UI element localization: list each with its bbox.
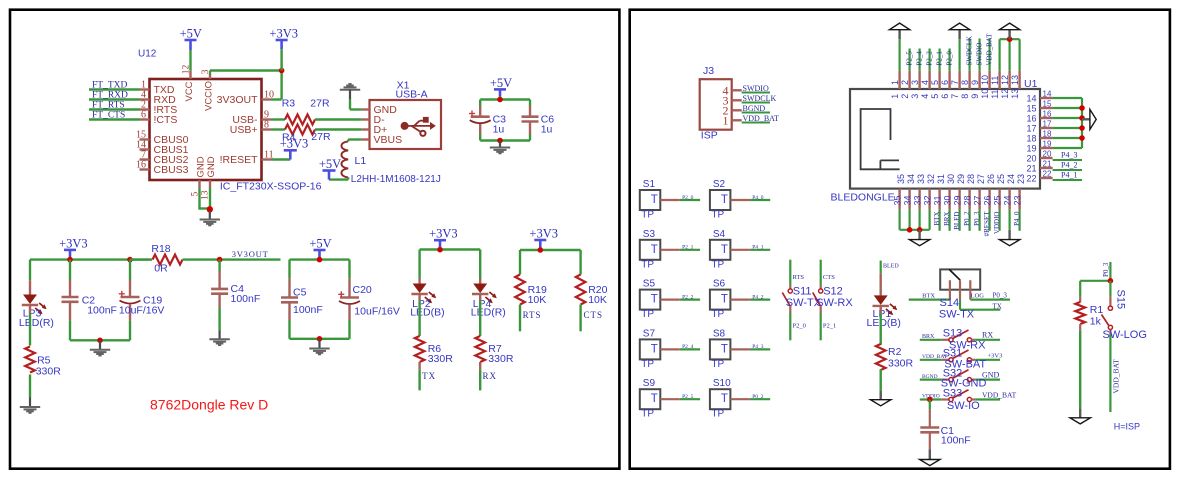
LED LP4 xyxy=(479,279,481,284)
junction +3V3 top xyxy=(279,68,285,74)
resistor R5 xyxy=(25,347,35,373)
wire LP3 to R5 xyxy=(29,305,31,313)
svg-text:26: 26 xyxy=(983,195,993,205)
svg-text:22: 22 xyxy=(1043,170,1052,179)
svg-text:34: 34 xyxy=(903,195,913,205)
svg-text:6: 6 xyxy=(940,80,950,85)
svg-text:10: 10 xyxy=(980,75,990,85)
ground arrow pin24 xyxy=(1008,230,1010,240)
svg-text:BLEDONGLE: BLEDONGLE xyxy=(831,192,895,204)
svg-text:RX: RX xyxy=(982,331,993,340)
svg-text:27: 27 xyxy=(976,174,986,184)
net label FT_CTS xyxy=(89,118,140,120)
svg-text:RX: RX xyxy=(483,371,498,381)
svg-text:2: 2 xyxy=(900,80,910,85)
svg-text:24: 24 xyxy=(1006,174,1016,184)
resistor R6 xyxy=(415,336,425,362)
U1 pin 19 xyxy=(1040,147,1053,149)
svg-text:P2_4: P2_4 xyxy=(916,51,924,66)
svg-text:FT_RXD: FT_RXD xyxy=(92,91,128,101)
capacitor C20 xyxy=(348,260,350,279)
svg-text:33: 33 xyxy=(913,195,923,205)
wire S2 to P4_0 xyxy=(730,199,750,201)
wire S7 to P2_4 xyxy=(660,348,680,350)
capacitor C3 xyxy=(479,100,481,107)
svg-text:29: 29 xyxy=(956,174,966,184)
svg-text:20: 20 xyxy=(1026,154,1036,164)
U1 pin 22 xyxy=(1040,177,1053,179)
power +5V U12 xyxy=(189,50,191,71)
svg-text:GND: GND xyxy=(196,156,207,177)
wire BTX to S14 xyxy=(909,299,950,301)
U1 pin 30 xyxy=(948,189,950,210)
switch S12 SW-RX xyxy=(820,260,822,285)
svg-text:14: 14 xyxy=(1043,90,1052,99)
svg-text:SW-IO: SW-IO xyxy=(947,400,980,412)
U1 pin 14 xyxy=(1040,97,1053,99)
svg-text:ISP: ISP xyxy=(701,129,718,141)
testpoint S9 xyxy=(640,389,661,409)
svg-text:18: 18 xyxy=(1043,130,1052,139)
svg-text:P0_2: P0_2 xyxy=(752,394,764,400)
U1 module drawing xyxy=(861,109,900,169)
wire R4 to D+ xyxy=(315,128,362,130)
svg-text:3V3OUT: 3V3OUT xyxy=(217,94,258,106)
svg-text:SW-LOG: SW-LOG xyxy=(1103,329,1147,341)
svg-text:3V3OUT: 3V3OUT xyxy=(232,249,269,259)
switch S32 SW-GND xyxy=(920,379,942,381)
svg-text:21: 21 xyxy=(1043,160,1052,169)
svg-text:FT_TXD: FT_TXD xyxy=(92,81,128,91)
U1 pin 7 xyxy=(958,71,960,89)
svg-text:H=ISP: H=ISP xyxy=(1114,422,1140,432)
svg-text:+5V: +5V xyxy=(490,76,512,90)
U12 pin 6 !CTS xyxy=(140,118,150,120)
junction pin34 bottom xyxy=(907,227,913,233)
svg-text:32: 32 xyxy=(923,195,933,205)
wire LP2 to R6 xyxy=(418,294,420,301)
svg-text:P0_3: P0_3 xyxy=(973,211,981,226)
U1 pin 4 xyxy=(928,71,930,89)
wire +3V3 rail left xyxy=(30,258,150,260)
junction C5 rail xyxy=(317,257,323,263)
U1 pin 23 xyxy=(1018,189,1020,210)
inductor L1 xyxy=(341,141,348,177)
svg-text:BRX: BRX xyxy=(922,334,935,340)
svg-text:24: 24 xyxy=(1003,195,1013,205)
wire R5 gnd xyxy=(29,375,31,398)
junction C3 top xyxy=(497,97,503,103)
svg-text:16: 16 xyxy=(1026,114,1036,124)
wire R1 gnd xyxy=(1079,330,1081,409)
power +3V3 pullups xyxy=(534,239,546,242)
junction C19 xyxy=(127,257,133,263)
svg-text:7: 7 xyxy=(950,94,960,99)
svg-text:+5V: +5V xyxy=(309,236,331,250)
svg-text:33: 33 xyxy=(916,174,926,184)
svg-text:USB-A: USB-A xyxy=(396,89,428,101)
svg-text:BTX: BTX xyxy=(922,292,935,299)
svg-text:330R: 330R xyxy=(488,353,514,365)
U12 pin 13 GND xyxy=(209,180,211,188)
U1 pin 13 xyxy=(1018,71,1020,89)
switch S15 SW-LOG xyxy=(1109,281,1111,297)
ground arrow C1 xyxy=(929,449,931,459)
svg-text:LED(R): LED(R) xyxy=(19,317,54,329)
svg-text:3: 3 xyxy=(910,80,920,85)
svg-text:14: 14 xyxy=(1026,94,1036,104)
svg-text:R2: R2 xyxy=(888,346,902,358)
svg-text:330R: 330R xyxy=(428,353,454,365)
wire +3V3 rail LEDs xyxy=(420,248,481,250)
svg-text:TP: TP xyxy=(641,210,654,221)
J3 pin 1 VDD_BAT xyxy=(732,119,742,121)
svg-text:USB+: USB+ xyxy=(230,124,258,136)
svg-text:S13: S13 xyxy=(943,328,963,340)
wire R18 to 3V3OUT xyxy=(183,258,281,260)
svg-text:31: 31 xyxy=(936,174,946,184)
svg-text:T: T xyxy=(651,194,658,206)
svg-text:SW-RX: SW-RX xyxy=(816,297,853,309)
junction S33 xyxy=(927,397,933,403)
svg-text:1k: 1k xyxy=(1090,316,1102,328)
wire VBUS to L1 xyxy=(348,138,362,140)
svg-text:BRX: BRX xyxy=(943,212,951,226)
svg-text:TP: TP xyxy=(711,359,724,370)
svg-text:15: 15 xyxy=(1026,104,1036,114)
switch S13 SW-RX xyxy=(920,339,942,341)
power +5V L1 xyxy=(328,171,331,180)
resistor R18 xyxy=(130,258,152,260)
svg-text:34: 34 xyxy=(906,174,916,184)
U12 pin 11 !RESET xyxy=(262,158,272,160)
junction right bracket xyxy=(1079,135,1085,141)
svg-text:J3: J3 xyxy=(703,65,714,77)
testpoint S10 xyxy=(710,389,731,409)
svg-text:T: T xyxy=(721,194,728,206)
junction S15 top xyxy=(1108,278,1114,284)
power +3V3 top xyxy=(280,49,282,70)
LED LP3 xyxy=(29,280,31,294)
U1 pin 29 xyxy=(958,189,960,210)
junction C2 xyxy=(67,257,73,263)
U12 pin 1 TXD xyxy=(140,88,150,90)
svg-text:5: 5 xyxy=(930,94,940,99)
wire R6 TX xyxy=(418,362,420,370)
testpoint S3 xyxy=(640,240,661,260)
X1 pin VBUS xyxy=(362,138,370,140)
IC U12 body xyxy=(150,79,262,180)
wire pin13 gnd xyxy=(209,188,211,209)
svg-text:10uF/16V: 10uF/16V xyxy=(354,306,400,318)
supply arrow pin12 xyxy=(1008,30,1010,39)
svg-text:3: 3 xyxy=(910,94,920,99)
resistor R3 xyxy=(285,115,315,125)
junction pullup rail xyxy=(538,247,544,253)
wire pin8 to R4 xyxy=(272,128,286,130)
svg-text:T: T xyxy=(721,294,728,306)
svg-text:BLED: BLED xyxy=(953,212,961,230)
U12 pin 3 VCCIO xyxy=(209,74,211,79)
svg-text:CTS: CTS xyxy=(823,274,835,281)
svg-text:C5: C5 xyxy=(293,287,307,299)
LED LP2 xyxy=(418,279,420,284)
capacitor C5 xyxy=(288,260,290,279)
svg-text:T: T xyxy=(651,343,658,355)
testpoint S4 xyxy=(710,240,731,260)
resistor R7 xyxy=(475,336,485,362)
svg-text:TX: TX xyxy=(422,371,436,381)
svg-text:11: 11 xyxy=(990,89,1000,98)
U1 pin 33 xyxy=(918,189,920,210)
junction C4 xyxy=(217,257,223,263)
svg-text:28: 28 xyxy=(963,195,973,205)
svg-text:0R: 0R xyxy=(154,263,168,275)
svg-text:7: 7 xyxy=(950,80,960,85)
svg-text:T: T xyxy=(651,393,658,405)
svg-text:U1: U1 xyxy=(1024,78,1038,90)
svg-text:1: 1 xyxy=(723,113,729,127)
svg-text:9: 9 xyxy=(970,80,980,85)
svg-text:+3V3: +3V3 xyxy=(59,236,88,250)
capacitor C2 xyxy=(69,260,71,280)
U12 pin 12 VCC xyxy=(189,71,191,79)
svg-text:23: 23 xyxy=(1013,195,1023,205)
svg-text:TP: TP xyxy=(641,409,654,420)
svg-text:35: 35 xyxy=(896,174,906,184)
J3 pin 2 BGND xyxy=(732,109,742,111)
testpoint S6 xyxy=(710,290,731,310)
junction right bracket xyxy=(1079,125,1085,131)
U12 pin 7 CBUS2 xyxy=(140,158,150,160)
wire S33 to C1 xyxy=(929,400,931,410)
ground R5 xyxy=(20,406,40,408)
svg-text:LED(B): LED(B) xyxy=(867,317,901,329)
U12 pin 5 GND xyxy=(198,180,200,188)
power +5V C3 xyxy=(494,88,506,91)
U1 pin 11 xyxy=(998,71,1000,89)
wire S8 to P4_3 xyxy=(730,348,750,350)
U1 pin 12 xyxy=(1008,71,1010,89)
svg-text:30: 30 xyxy=(943,195,953,205)
svg-text:CBUS3: CBUS3 xyxy=(154,164,189,176)
U12 pin 10 3V3OUT xyxy=(262,98,272,100)
junction pin12 top xyxy=(1007,36,1013,42)
svg-text:25: 25 xyxy=(993,195,1003,205)
svg-text:100nF: 100nF xyxy=(231,293,261,305)
resistor R20 xyxy=(576,275,586,305)
svg-text:LED(B): LED(B) xyxy=(410,306,444,318)
svg-text:16: 16 xyxy=(136,160,146,171)
wire S14 TX xyxy=(959,300,961,310)
U12 pin 9 USB- xyxy=(262,118,272,120)
svg-text:R18: R18 xyxy=(151,243,170,255)
svg-text:TP: TP xyxy=(711,210,724,221)
svg-text:U12: U12 xyxy=(138,48,157,59)
junction pin33 bottom xyxy=(917,227,923,233)
svg-text:S6: S6 xyxy=(713,279,726,290)
ground arrow R1 xyxy=(1070,418,1090,424)
svg-text:P2_1: P2_1 xyxy=(823,323,836,330)
svg-text:27: 27 xyxy=(973,195,983,205)
svg-text:P2_1: P2_1 xyxy=(682,245,694,251)
wire S10 to P0_2 xyxy=(730,398,750,400)
wire +5V rail C3C6 xyxy=(480,98,530,100)
svg-text:IC_FT230X-SSOP-16: IC_FT230X-SSOP-16 xyxy=(220,181,322,193)
svg-text:27R: 27R xyxy=(311,131,331,143)
svg-text:S14: S14 xyxy=(940,297,960,309)
svg-text:S4: S4 xyxy=(713,229,726,240)
U12 pin 2 !RTS xyxy=(140,108,150,110)
svg-text:23: 23 xyxy=(1016,174,1026,184)
svg-text:SWDIO: SWDIO xyxy=(743,84,769,93)
net label FT_RTS xyxy=(89,108,140,110)
svg-text:27R: 27R xyxy=(310,98,330,110)
supply arrow right xyxy=(1082,118,1090,120)
resistor R1 xyxy=(1079,297,1081,303)
wire S9 to P2_5 xyxy=(660,398,680,400)
svg-text:P2_2: P2_2 xyxy=(926,51,934,66)
svg-text:VDDIO: VDDIO xyxy=(993,212,1001,235)
wire VCCIO to +3V3 xyxy=(210,69,282,71)
U1 pin 34 xyxy=(908,189,910,210)
svg-text:VCC: VCC xyxy=(184,81,195,101)
svg-text:P4_1: P4_1 xyxy=(752,245,764,251)
svg-text:32: 32 xyxy=(926,174,936,184)
ground arrow LP1 xyxy=(871,400,891,406)
U1 pin 10 xyxy=(988,71,990,89)
svg-text:35: 35 xyxy=(893,195,903,205)
svg-text:1: 1 xyxy=(890,80,900,85)
svg-text:P2_0: P2_0 xyxy=(682,195,694,201)
wire S6 to P4_2 xyxy=(730,299,750,301)
svg-text:28: 28 xyxy=(966,174,976,184)
junction gnd C5C20 xyxy=(317,336,323,342)
capacitor C19 xyxy=(129,260,131,280)
svg-text:TP: TP xyxy=(711,259,724,270)
svg-text:S11: S11 xyxy=(793,286,812,298)
switch S11 SW-TX xyxy=(789,260,791,285)
svg-text:VDD_BAT: VDD_BAT xyxy=(743,114,780,123)
LED LP1 xyxy=(880,274,882,296)
svg-text:4: 4 xyxy=(920,80,930,85)
ground X1 xyxy=(340,89,360,91)
svg-text:100nF: 100nF xyxy=(87,305,117,317)
svg-text:9: 9 xyxy=(970,94,980,99)
svg-text:T: T xyxy=(651,294,658,306)
ground C5C20 xyxy=(318,339,320,348)
svg-text:FT_CTS: FT_CTS xyxy=(92,111,125,121)
svg-text:S3: S3 xyxy=(643,229,656,240)
svg-text:13: 13 xyxy=(1010,89,1020,99)
svg-text:T: T xyxy=(721,244,728,256)
U1 pin 18 xyxy=(1040,137,1053,139)
wire LP4 to R7 xyxy=(479,294,481,301)
U12 pin 15 CBUS0 xyxy=(140,138,150,140)
U1 pin 20 xyxy=(1040,157,1053,159)
X1 pin D- xyxy=(362,118,370,120)
testpoint S5 xyxy=(640,290,661,310)
svg-text:S1: S1 xyxy=(643,179,656,190)
svg-text:29: 29 xyxy=(953,195,963,205)
svg-text:17: 17 xyxy=(1026,124,1036,134)
power +3V3 rail xyxy=(64,249,76,252)
wire pin11 +3V3 xyxy=(272,158,291,160)
ground C2C19 xyxy=(99,340,101,349)
capacitor C1 xyxy=(920,426,939,429)
X1 pin D+ xyxy=(362,128,370,130)
svg-text:10K: 10K xyxy=(588,294,607,306)
svg-text:1: 1 xyxy=(890,94,900,99)
wire pin5 gnd xyxy=(198,188,200,209)
svg-text:26: 26 xyxy=(986,174,996,184)
wire L1 to +5V xyxy=(329,178,348,180)
svg-text:C20: C20 xyxy=(353,284,372,296)
svg-text:6: 6 xyxy=(141,110,146,121)
svg-text:P4_0: P4_0 xyxy=(752,195,764,201)
testpoint S8 xyxy=(710,339,731,359)
U1 pin 17 xyxy=(1040,127,1053,129)
svg-text:VBUS: VBUS xyxy=(374,134,403,146)
power +3V3 LEDs xyxy=(434,239,446,242)
connector X1 USB-A body xyxy=(370,100,442,149)
svg-text:17: 17 xyxy=(1043,120,1052,129)
switch S14 SW-TX xyxy=(940,269,980,289)
svg-text:S9: S9 xyxy=(643,378,656,389)
svg-text:P4_2: P4_2 xyxy=(1061,161,1077,170)
svg-text:S7: S7 xyxy=(643,328,656,339)
svg-text:P4_0: P4_0 xyxy=(1013,211,1021,226)
svg-text:12: 12 xyxy=(1000,89,1010,99)
svg-text:!RESET: !RESET xyxy=(220,154,259,166)
wire pin9 to R3 xyxy=(272,118,286,120)
svg-text:S2: S2 xyxy=(713,179,726,190)
svg-text:8: 8 xyxy=(960,94,970,99)
svg-text:10K: 10K xyxy=(528,294,547,306)
U12 pin 14 CBUS1 xyxy=(140,148,150,150)
U1 pin 3 xyxy=(918,71,920,89)
svg-text:L2HH-1M1608-121J: L2HH-1M1608-121J xyxy=(351,174,441,185)
junction right bracket xyxy=(1079,115,1085,121)
svg-text:BTX: BTX xyxy=(933,212,941,226)
svg-text:+3V3: +3V3 xyxy=(988,353,1003,360)
svg-text:100nF: 100nF xyxy=(293,304,323,316)
svg-text:P4_3: P4_3 xyxy=(1061,151,1077,160)
net label P0_3 top xyxy=(1109,262,1111,281)
wire +5V rail C5C20 xyxy=(290,258,350,260)
svg-text:21: 21 xyxy=(1026,164,1036,174)
ground arrow pins35-32 xyxy=(918,230,920,240)
J3 pin 3 SWDCLK xyxy=(732,99,742,101)
svg-text:P0_3: P0_3 xyxy=(1102,262,1110,277)
svg-text:TX: TX xyxy=(993,302,1002,310)
svg-text:P4_1: P4_1 xyxy=(1061,171,1077,180)
svg-text:100nF: 100nF xyxy=(941,435,971,447)
svg-text:30: 30 xyxy=(946,174,956,184)
wire R1 S15 rail xyxy=(1080,280,1110,282)
svg-text:TP: TP xyxy=(641,309,654,320)
junction right bracket xyxy=(1079,105,1085,111)
J3 pin 4 SWDIO xyxy=(732,89,742,91)
U12 pin 4 RXD xyxy=(140,98,150,100)
wire gnd rail C3C6 xyxy=(480,139,530,141)
svg-text:TP: TP xyxy=(711,409,724,420)
wire S5 to P2_2 xyxy=(660,299,680,301)
ground U12 xyxy=(209,211,211,219)
wire pins 11-13 bracket xyxy=(998,39,1000,71)
supply arrow pin1 xyxy=(898,30,900,39)
svg-text:P0_2: P0_2 xyxy=(963,211,971,226)
